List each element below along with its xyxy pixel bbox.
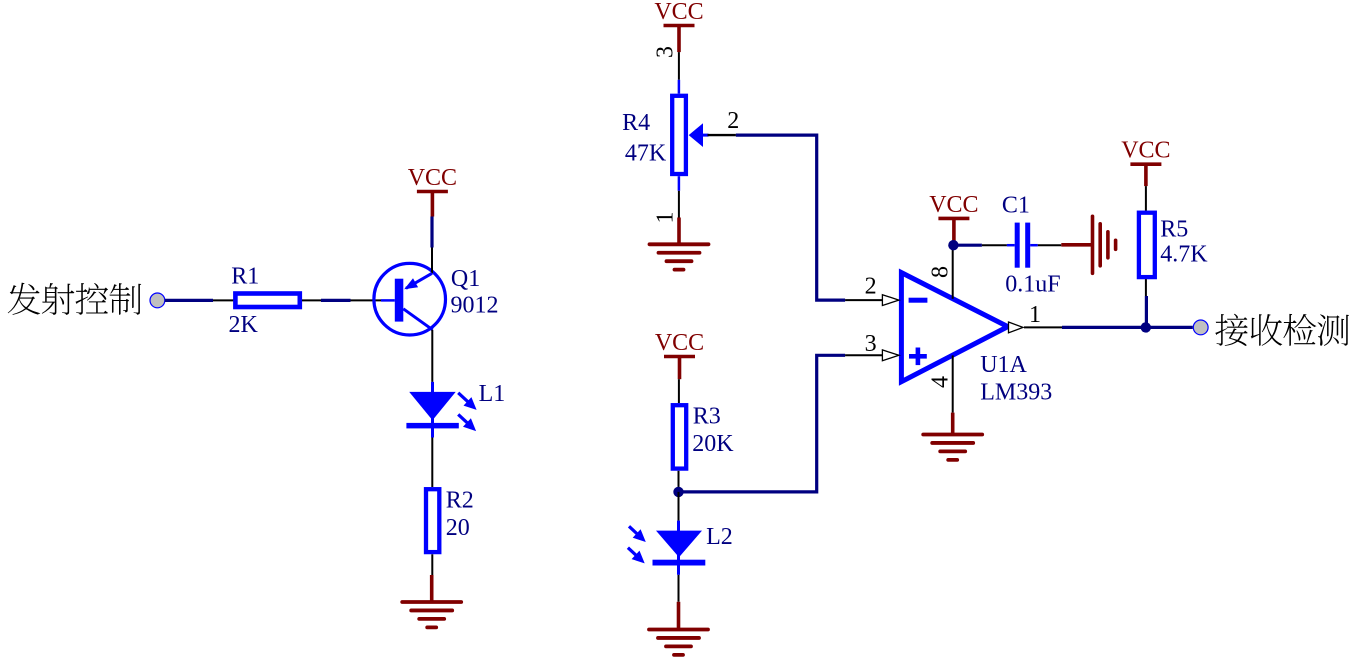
op-amp U1A (845, 245, 1062, 412)
svg-text:R2: R2 (446, 488, 474, 514)
junction (1141, 322, 1151, 332)
wire (1145, 296, 1148, 327)
ground (923, 413, 982, 460)
svg-text:VCC: VCC (408, 165, 457, 191)
svg-text:VCC: VCC (929, 192, 978, 218)
wire (953, 244, 982, 247)
svg-text:4.7K: 4.7K (1160, 241, 1208, 267)
ground (650, 218, 709, 270)
ground (1061, 216, 1115, 273)
wire (1062, 326, 1193, 329)
power VCC (1121, 138, 1170, 186)
resistor R5 (1139, 186, 1155, 296)
power VCC (929, 192, 978, 245)
svg-text:C1: C1 (1002, 193, 1030, 219)
svg-text:R3: R3 (693, 403, 721, 429)
wire (165, 299, 213, 302)
terminal 接收检测 (1193, 320, 1208, 335)
svg-text:8: 8 (928, 266, 954, 278)
terminal 发射控制 (150, 293, 165, 308)
power VCC (408, 165, 457, 217)
svg-text:3: 3 (865, 331, 877, 357)
junction (673, 487, 683, 497)
svg-text:47K: 47K (625, 140, 667, 166)
svg-text:0.1uF: 0.1uF (1005, 271, 1060, 297)
wire (679, 355, 846, 492)
LED L1 (406, 382, 476, 487)
svg-text:R4: R4 (622, 110, 650, 136)
resistor R3 (673, 379, 686, 492)
wire (736, 135, 845, 300)
svg-text:2K: 2K (229, 312, 259, 338)
junction (948, 240, 958, 250)
svg-text:2: 2 (727, 108, 739, 134)
power VCC (654, 0, 703, 52)
LED L2 (628, 492, 705, 602)
svg-text:20K: 20K (692, 431, 734, 457)
svg-text:Q1: Q1 (451, 266, 480, 292)
svg-text:VCC: VCC (655, 330, 704, 356)
resistor R2 (426, 489, 439, 575)
power VCC (655, 330, 704, 379)
transistor Q1 (351, 248, 446, 382)
wire (321, 299, 351, 302)
capacitor C1 (982, 223, 1061, 268)
svg-text:3: 3 (653, 46, 679, 58)
svg-text:9012: 9012 (451, 292, 499, 318)
resistor R1 (213, 294, 321, 308)
svg-text:2: 2 (865, 274, 877, 300)
svg-text:VCC: VCC (654, 0, 703, 25)
potentiometer R4 (672, 52, 736, 217)
svg-text:LM393: LM393 (980, 380, 1052, 406)
svg-text:L2: L2 (706, 524, 733, 550)
svg-text:4: 4 (928, 376, 954, 388)
wire (430, 217, 433, 248)
svg-text:U1A: U1A (980, 352, 1027, 378)
ground (649, 602, 708, 655)
svg-text:1: 1 (653, 212, 679, 224)
svg-text:VCC: VCC (1121, 138, 1170, 164)
ground (402, 575, 461, 627)
svg-text:1: 1 (1029, 302, 1041, 328)
svg-text:R1: R1 (231, 263, 259, 289)
svg-text:20: 20 (446, 515, 470, 541)
svg-text:R5: R5 (1160, 217, 1188, 243)
node 发射控制 (8, 283, 141, 315)
svg-text:L1: L1 (479, 381, 506, 407)
node 接收检测 (1215, 314, 1349, 346)
